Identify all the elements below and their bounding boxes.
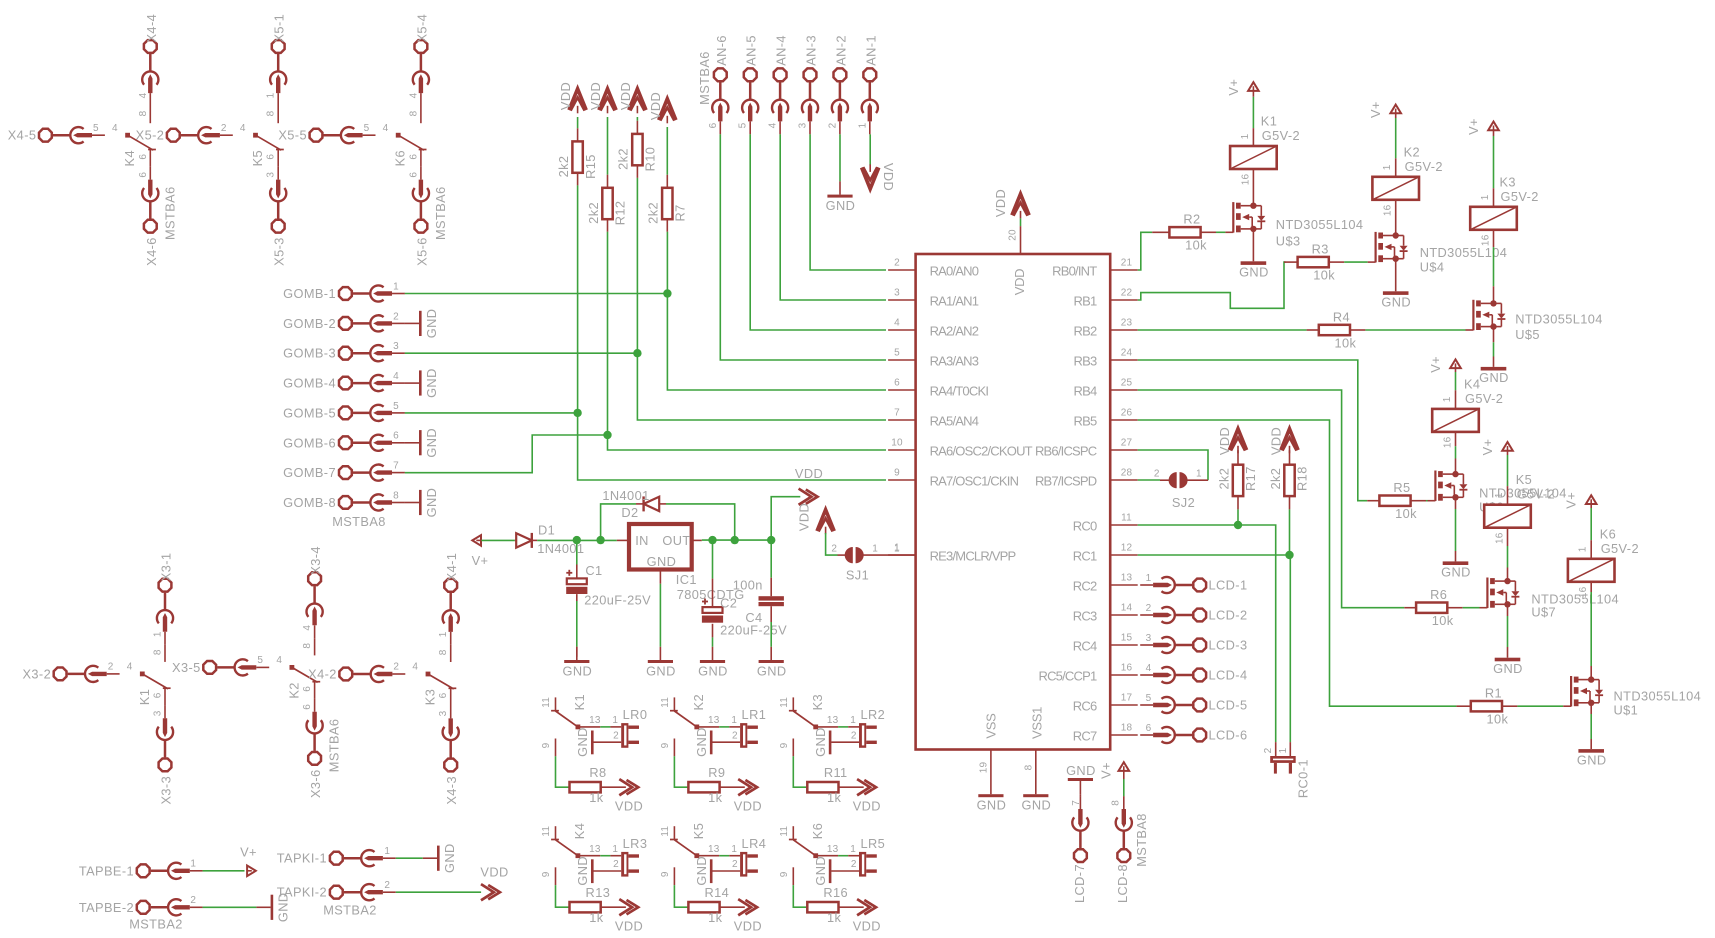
- connector pin AN-5: [744, 68, 757, 81]
- svg-text:GOMB-1: GOMB-1: [283, 286, 336, 301]
- relay contact K4 pivot and lever: [125, 133, 130, 138]
- svg-text:8: 8: [393, 490, 399, 501]
- IC pin 27 RB6/ICSPC: [1110, 449, 1138, 451]
- svg-text:7: 7: [1071, 800, 1082, 806]
- svg-text:6: 6: [438, 692, 449, 698]
- svg-text:VDD: VDD: [480, 865, 508, 880]
- resistor R12 2k2: [607, 175, 609, 188]
- svg-text:VDD: VDD: [648, 92, 663, 120]
- svg-text:U$7: U$7: [1531, 605, 1556, 620]
- svg-text:1: 1: [612, 715, 618, 726]
- svg-text:VDD: VDD: [853, 799, 881, 814]
- svg-text:K1: K1: [1261, 114, 1277, 129]
- power VDD: [738, 779, 751, 795]
- ground GOMB-2: [405, 322, 419, 324]
- power V+ (K5): [1502, 442, 1513, 451]
- junction GOMB-1/R7: [663, 289, 671, 297]
- svg-text:2: 2: [851, 730, 857, 741]
- IC pin 13 RC2: [1110, 584, 1138, 586]
- relay coil K5 G5V-2: [1484, 505, 1531, 528]
- svg-text:220uF-25V: 220uF-25V: [584, 593, 651, 608]
- svg-text:13: 13: [827, 715, 839, 726]
- svg-text:GND: GND: [1021, 798, 1051, 813]
- resistor R14 1k: [687, 906, 690, 908]
- wire R4 to gate: [1350, 329, 1365, 331]
- svg-text:R14: R14: [704, 885, 729, 900]
- ground TAPBE-2: [256, 906, 270, 908]
- ground: [829, 859, 832, 883]
- wire OUT to VDD: [771, 497, 800, 540]
- junction RC0/R17: [1234, 521, 1242, 529]
- svg-text:100n: 100n: [733, 578, 763, 593]
- wire AN-2 to ground: [839, 134, 841, 181]
- svg-text:K3: K3: [423, 689, 438, 705]
- svg-text:RA2/AN2: RA2/AN2: [930, 324, 979, 339]
- IC pin 22 RB1: [1110, 299, 1138, 301]
- svg-text:LCD-8: LCD-8: [1115, 864, 1130, 903]
- wire RB7 to SJ2: [1138, 479, 1160, 481]
- svg-text:X3-2: X3-2: [22, 666, 51, 681]
- svg-text:X5-6: X5-6: [414, 237, 429, 266]
- svg-text:GND: GND: [646, 663, 676, 678]
- svg-text:21: 21: [1121, 258, 1133, 269]
- svg-text:RC4: RC4: [1073, 639, 1097, 654]
- svg-text:16: 16: [1443, 436, 1454, 448]
- wire GOMB-3 to RA5: [405, 352, 638, 354]
- transistor U$5 NTD3055L104: [1472, 300, 1474, 331]
- connector pin X4-3: [444, 759, 457, 772]
- svg-text:AN-6: AN-6: [714, 35, 729, 66]
- svg-text:3: 3: [894, 288, 900, 299]
- svg-text:MSTBA6: MSTBA6: [697, 51, 712, 105]
- svg-text:R15: R15: [583, 154, 598, 179]
- svg-text:18: 18: [1121, 723, 1133, 734]
- wire V+ to K1: [1252, 91, 1254, 97]
- wire TAPBE-1 to V+: [203, 870, 245, 872]
- resistor R17 2k2: [1237, 450, 1239, 464]
- IC pin 1 RE3/MCLR/VPP: [888, 554, 916, 556]
- resistor R16 1k: [806, 906, 809, 908]
- ground: [710, 731, 713, 755]
- svg-text:RE3/MCLR/VPP: RE3/MCLR/VPP: [930, 549, 1016, 564]
- LED connector LR2: [848, 726, 859, 728]
- ground VSS: [990, 781, 992, 794]
- wire GOMB-1 to RA4: [405, 293, 668, 295]
- relay contact K1 pin 6 (bottom): [164, 688, 166, 705]
- svg-text:GOMB-2: GOMB-2: [283, 316, 336, 331]
- IC pin 25 RB4: [1110, 389, 1138, 391]
- connector pin LCD-6: [1193, 729, 1206, 742]
- svg-text:RA7/OSC1/CKIN: RA7/OSC1/CKIN: [930, 474, 1019, 489]
- svg-text:GND: GND: [575, 856, 590, 886]
- power V+ input: [472, 535, 481, 546]
- svg-text:4: 4: [240, 123, 246, 134]
- wire AN-3 to RA0: [810, 134, 886, 270]
- svg-text:GND: GND: [1066, 763, 1096, 778]
- ground GOMB-8: [405, 502, 419, 504]
- wire K19 to R8: [556, 756, 569, 787]
- relay contact K2 pin 13: [697, 726, 719, 728]
- svg-text:16: 16: [1383, 204, 1394, 216]
- svg-text:16: 16: [1578, 586, 1589, 598]
- relay contact K2 pivot and lever: [290, 665, 295, 670]
- svg-text:GND: GND: [813, 856, 828, 886]
- svg-text:R7: R7: [673, 204, 688, 221]
- wire VDD to R15: [577, 117, 579, 128]
- ground U$4: [1383, 291, 1409, 295]
- wire TAPBE-2 to ground: [203, 906, 257, 908]
- power V+ (K6): [1586, 495, 1597, 504]
- svg-text:RB5: RB5: [1074, 414, 1097, 429]
- svg-text:RB1: RB1: [1074, 294, 1097, 309]
- svg-text:LR4: LR4: [742, 836, 767, 851]
- svg-text:9: 9: [779, 871, 790, 877]
- wire source to ground (U$1): [1590, 703, 1592, 714]
- svg-text:10: 10: [891, 438, 903, 449]
- wire K213 to LR11: [719, 726, 729, 728]
- svg-text:2: 2: [613, 859, 619, 870]
- wire R10 to RA5 (pin 7): [637, 178, 886, 420]
- svg-text:3: 3: [153, 710, 164, 716]
- wire TAPKI-1 to ground: [396, 857, 423, 859]
- power VDD (TAPKI-2): [481, 884, 494, 900]
- connector pin GOMB-2: [339, 317, 352, 330]
- wire V+ to LCD-8: [1123, 779, 1125, 796]
- svg-text:RB3: RB3: [1074, 354, 1097, 369]
- svg-text:10k: 10k: [1313, 267, 1335, 282]
- svg-text:16: 16: [1495, 532, 1506, 544]
- svg-text:6: 6: [138, 172, 149, 178]
- svg-text:G5V-2: G5V-2: [1517, 487, 1555, 502]
- svg-text:AN-4: AN-4: [774, 35, 789, 66]
- svg-text:1: 1: [153, 631, 164, 637]
- connector pin AN-2: [834, 68, 847, 81]
- svg-text:U$5: U$5: [1515, 327, 1540, 342]
- connector pin X5-1: [272, 40, 285, 53]
- svg-text:4: 4: [383, 123, 389, 134]
- ground U$3: [1241, 261, 1267, 265]
- ground: [591, 731, 594, 755]
- ground IC1: [659, 570, 661, 584]
- svg-text:RC1: RC1: [1073, 549, 1097, 564]
- svg-text:3: 3: [393, 341, 399, 352]
- svg-text:D2: D2: [621, 505, 638, 520]
- IC pin 18 RC7: [1110, 734, 1138, 736]
- svg-text:LCD-1: LCD-1: [1209, 578, 1248, 593]
- svg-text:27: 27: [1121, 438, 1133, 449]
- svg-text:GOMB-8: GOMB-8: [283, 495, 336, 510]
- relay contact K6 lever: [793, 840, 815, 856]
- svg-text:2: 2: [384, 880, 390, 891]
- svg-text:X4-3: X4-3: [444, 776, 459, 805]
- ground GOMB-6: [405, 442, 419, 444]
- relay contact K5 pin 6 (bottom): [277, 150, 279, 167]
- power VDD: [857, 779, 870, 795]
- svg-text:GOMB-5: GOMB-5: [283, 405, 336, 420]
- svg-text:5: 5: [393, 401, 399, 412]
- connector pin AN-6: [714, 68, 727, 81]
- svg-text:RC6: RC6: [1073, 699, 1097, 714]
- junction C4: [767, 536, 775, 544]
- ground: [829, 731, 832, 755]
- svg-text:MSTBA8: MSTBA8: [332, 514, 386, 529]
- connector pin TAPBE-1: [137, 864, 150, 877]
- svg-text:R17: R17: [1243, 466, 1258, 491]
- svg-text:1: 1: [872, 544, 878, 555]
- wire V+ to K6: [1590, 504, 1592, 508]
- relay contact K6 pin 8 (top): [420, 106, 422, 123]
- svg-text:TAPKI-1: TAPKI-1: [277, 851, 327, 866]
- svg-text:GOMB-4: GOMB-4: [283, 376, 336, 391]
- svg-text:VDD: VDD: [853, 919, 881, 934]
- wire R12 to RA6 (pin 10): [608, 232, 887, 450]
- svg-text:VDD: VDD: [881, 163, 896, 191]
- svg-text:2: 2: [108, 662, 114, 673]
- svg-text:X4-2: X4-2: [308, 667, 337, 682]
- wire R2 to gate: [1201, 231, 1216, 233]
- LED connector LR3 pin 2 to ground: [593, 870, 621, 872]
- svg-text:4: 4: [276, 655, 282, 666]
- svg-text:2: 2: [1146, 603, 1152, 614]
- svg-text:1k: 1k: [827, 910, 842, 925]
- svg-text:2: 2: [190, 895, 196, 906]
- svg-text:X3-4: X3-4: [308, 546, 323, 575]
- ground GOMB-4: [405, 382, 419, 384]
- relay contact K6 pin 6 (bottom): [420, 150, 422, 167]
- svg-text:V+: V+: [1480, 439, 1495, 456]
- svg-text:X5-4: X5-4: [414, 14, 429, 43]
- connector pin GOMB-6: [339, 436, 352, 449]
- svg-text:13: 13: [708, 844, 720, 855]
- svg-text:8: 8: [1111, 800, 1122, 806]
- relay contact K5 pin 8 (top): [277, 106, 279, 123]
- relay contact K6 pin 13: [816, 855, 838, 857]
- svg-text:5: 5: [364, 123, 370, 134]
- wire R17 to RC0: [1237, 509, 1239, 525]
- junction D2 right: [731, 536, 739, 544]
- wire source to ground (U$5): [1493, 327, 1495, 343]
- relay coil K6 G5V-2: [1568, 559, 1615, 582]
- connector pin X4-4: [144, 40, 157, 53]
- relay contact K6 pin 9: [792, 867, 794, 885]
- svg-text:LR2: LR2: [860, 707, 885, 722]
- svg-text:U$3: U$3: [1276, 234, 1301, 249]
- wire K313 to LR21: [838, 726, 848, 728]
- IC pin 26 RB5: [1110, 419, 1138, 421]
- solder jumper SJ1: [838, 554, 847, 556]
- svg-text:28: 28: [1121, 468, 1133, 479]
- wire RB1 to R3: [1138, 262, 1286, 308]
- svg-text:13: 13: [708, 715, 720, 726]
- svg-text:V+: V+: [1226, 79, 1241, 96]
- svg-text:4: 4: [393, 371, 399, 382]
- wire source to ground (U$7): [1507, 604, 1509, 616]
- svg-text:VDD: VDD: [1268, 427, 1283, 455]
- resistor R3 10k: [1284, 261, 1298, 263]
- relay contact K3 pin 13: [816, 726, 838, 728]
- wire VDD to R7: [666, 127, 668, 175]
- svg-text:5: 5: [93, 123, 99, 134]
- wire K613 to LR51: [838, 855, 848, 857]
- wire VDD to R12: [607, 117, 609, 175]
- svg-text:R10: R10: [643, 147, 658, 172]
- svg-text:1: 1: [1196, 468, 1202, 479]
- svg-text:9: 9: [894, 468, 900, 479]
- IC pin 11 RC0: [1110, 524, 1138, 526]
- transistor U$6 NTD3055L104: [1434, 471, 1436, 502]
- svg-text:11: 11: [660, 826, 671, 837]
- relay contact K4 pin 6 (bottom): [149, 150, 151, 167]
- relay contact K1 pivot and lever: [140, 672, 145, 677]
- svg-text:VDD: VDD: [734, 919, 762, 934]
- relay contact K1 pin 13: [578, 726, 600, 728]
- svg-text:VDD: VDD: [588, 82, 603, 110]
- junction C2: [708, 536, 716, 544]
- svg-text:6: 6: [408, 154, 419, 160]
- transistor U$1 NTD3055L104: [1570, 676, 1572, 707]
- power VDD (down) AN-1: [862, 164, 879, 189]
- svg-text:OUT: OUT: [662, 533, 690, 548]
- wire R18 to RC1: [1289, 509, 1291, 555]
- svg-text:LCD-4: LCD-4: [1209, 668, 1248, 683]
- wire R15 to RA7 (pin 9): [578, 185, 886, 480]
- ground VSS1: [1035, 781, 1037, 794]
- svg-text:GND: GND: [1239, 265, 1269, 280]
- wire RB2 to R4: [1138, 329, 1307, 331]
- svg-text:X3-6: X3-6: [308, 769, 323, 798]
- svg-text:X3-1: X3-1: [159, 553, 174, 582]
- svg-text:V+: V+: [1564, 492, 1579, 509]
- svg-text:R3: R3: [1312, 242, 1329, 257]
- LED connector LR5: [848, 855, 859, 857]
- svg-text:1: 1: [857, 122, 868, 128]
- LED connector LR2 pin 2 to ground: [831, 741, 859, 743]
- ground: [710, 859, 713, 883]
- resistor R8 1k: [568, 786, 571, 788]
- svg-text:NTD3055L104: NTD3055L104: [1276, 217, 1364, 232]
- svg-text:R16: R16: [823, 885, 848, 900]
- resistor R6 10k: [1404, 607, 1416, 609]
- svg-text:K4: K4: [122, 150, 137, 166]
- power V+ (LCD-8): [1119, 762, 1130, 771]
- resistor R5 10k: [1367, 500, 1379, 502]
- connector pin LCD-1: [1193, 579, 1206, 592]
- svg-text:10k: 10k: [1486, 712, 1508, 727]
- svg-text:GND: GND: [647, 554, 677, 569]
- relay contact K2 pin 6 (bottom): [314, 682, 316, 699]
- svg-text:13: 13: [827, 844, 839, 855]
- svg-text:X4-1: X4-1: [444, 553, 459, 582]
- svg-text:4: 4: [138, 92, 149, 98]
- svg-text:K5: K5: [250, 150, 265, 166]
- svg-text:RC5/CCP1: RC5/CCP1: [1038, 669, 1096, 684]
- connector pin X3-3: [159, 759, 172, 772]
- transistor U$7 NTD3055L104: [1486, 578, 1488, 609]
- connector pin X5-5: [310, 129, 323, 142]
- svg-text:11: 11: [541, 697, 552, 708]
- ground U$1: [1578, 749, 1604, 753]
- connector pin GOMB-7: [339, 466, 352, 479]
- IC pin 4 RA2/AN2: [888, 329, 916, 331]
- svg-text:17: 17: [1121, 693, 1133, 704]
- svg-text:GND: GND: [442, 843, 457, 873]
- ground AN-2: [839, 181, 841, 194]
- svg-text:VDD: VDD: [618, 82, 633, 110]
- svg-text:2k2: 2k2: [1216, 468, 1231, 490]
- junction GOMB-7/R12: [603, 431, 611, 439]
- svg-text:SJ2: SJ2: [1172, 495, 1195, 510]
- LED connector LR4 pin 2 to ground: [712, 870, 740, 872]
- wire AN-1 to VDD: [869, 134, 871, 165]
- wire R6 to gate: [1447, 607, 1462, 609]
- svg-text:2: 2: [851, 859, 857, 870]
- power VDD: [857, 899, 870, 915]
- svg-text:R12: R12: [613, 201, 628, 226]
- power VDD: [619, 779, 632, 795]
- relay contact K5 pin 13: [697, 855, 719, 857]
- svg-text:2k2: 2k2: [646, 202, 661, 224]
- svg-text:MSTBA2: MSTBA2: [129, 917, 183, 932]
- svg-text:9: 9: [660, 742, 671, 748]
- svg-text:GND: GND: [562, 663, 592, 678]
- connector pin X5-2: [167, 129, 180, 142]
- svg-text:R1: R1: [1485, 686, 1502, 701]
- svg-text:MSTBA6: MSTBA6: [327, 719, 342, 773]
- svg-text:LR3: LR3: [623, 836, 648, 851]
- svg-text:X4-5: X4-5: [8, 128, 37, 143]
- wire D1 to IC1 IN: [537, 539, 617, 541]
- svg-text:2k2: 2k2: [616, 148, 631, 170]
- connector pin X3-4: [308, 572, 321, 585]
- svg-text:RA3/AN3: RA3/AN3: [930, 354, 979, 369]
- svg-text:MSTBA6: MSTBA6: [162, 186, 177, 240]
- relay coil K1 G5V-2: [1230, 146, 1277, 169]
- svg-text:2: 2: [221, 123, 227, 134]
- wire AN-5 to RA2: [750, 134, 886, 330]
- svg-text:RC7: RC7: [1073, 729, 1097, 744]
- svg-text:4: 4: [768, 122, 779, 128]
- connector pin AN-3: [804, 68, 817, 81]
- IC pin 19 VSS: [990, 750, 992, 782]
- wire K513 to LR41: [719, 855, 729, 857]
- wire K413 to LR31: [600, 855, 610, 857]
- transistor U$3 NTD3055L104: [1232, 202, 1234, 233]
- svg-text:6: 6: [302, 704, 313, 710]
- relay contact K4 pin 13: [578, 855, 600, 857]
- junction C1: [573, 536, 581, 544]
- wire VDD to R10: [636, 117, 638, 121]
- svg-text:3: 3: [266, 172, 277, 178]
- svg-text:GND: GND: [694, 856, 709, 886]
- svg-text:10k: 10k: [1334, 335, 1356, 350]
- wire V+ to K2: [1395, 113, 1397, 118]
- svg-text:2k2: 2k2: [556, 156, 571, 178]
- svg-text:K5: K5: [1516, 472, 1532, 487]
- IC pin 28 RB7/ICSPD: [1110, 479, 1138, 481]
- relay contact K1 pin 9: [555, 739, 557, 757]
- svg-text:1k: 1k: [589, 790, 604, 805]
- wire R7 to RA4 (pin 6): [667, 232, 886, 390]
- svg-text:NTD3055L104: NTD3055L104: [1614, 689, 1702, 704]
- svg-text:AN-3: AN-3: [804, 35, 819, 66]
- svg-text:GND: GND: [424, 488, 439, 518]
- svg-text:8: 8: [153, 649, 164, 655]
- IC pin 6 RA4/T0CKI: [888, 389, 916, 391]
- svg-text:K4: K4: [1464, 376, 1480, 391]
- svg-text:LCD-6: LCD-6: [1209, 728, 1248, 743]
- connector pin X4-5: [39, 129, 52, 142]
- connector pin LCD-3: [1193, 639, 1206, 652]
